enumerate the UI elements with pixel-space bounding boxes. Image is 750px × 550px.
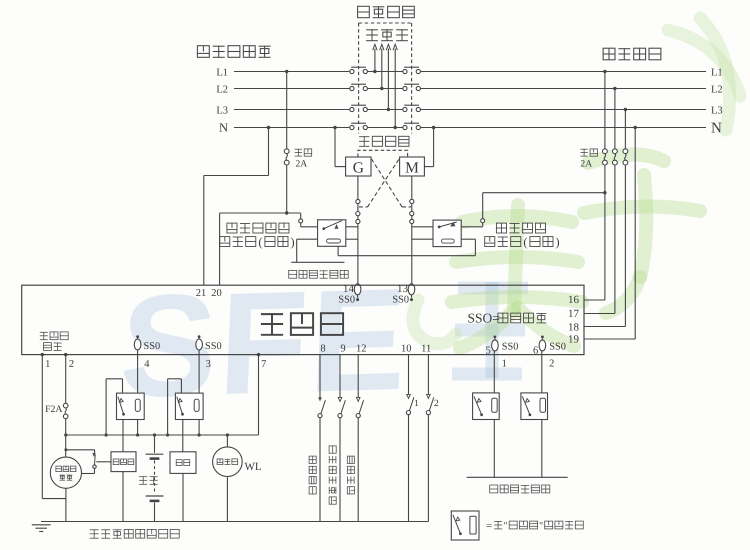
wire gen N down-left to pin21 — [204, 128, 269, 286]
wire gen fuse to relay row — [286, 165, 288, 213]
svg-text:F2A: F2A — [45, 404, 62, 415]
svg-text:1: 1 — [502, 359, 507, 370]
terminal circle into gen relay — [299, 213, 318, 227]
label pin 17 — [568, 308, 580, 320]
wire phase L3 — [234, 109, 706, 111]
pin7 wire to rail — [257, 353, 260, 435]
label rotated 遠端遙控啟動 — [329, 446, 336, 504]
label generator output 發電機輸出 — [197, 46, 270, 58]
label SSO=固態輸出 — [468, 311, 547, 326]
input switch pin9 — [338, 355, 346, 522]
svg-text:L1: L1 — [216, 67, 228, 78]
relay2 switch-top loop to rail — [166, 379, 181, 437]
svg-text:L3: L3 — [216, 105, 228, 116]
pin6 oval terminal — [539, 336, 546, 393]
svg-text:L2: L2 — [711, 84, 723, 95]
controller box 控制器 — [22, 285, 584, 354]
relay fuel (pin3) box — [175, 393, 203, 419]
contact M main N — [403, 123, 421, 129]
label 機房供電正極 upper — [289, 270, 349, 278]
svg-text:16: 16 — [568, 294, 580, 306]
wire pin6 relay to positive bar — [541, 420, 543, 478]
wire phase N — [234, 127, 706, 129]
contactor coil M box — [400, 157, 425, 176]
svg-text:SFE: SFE — [117, 258, 412, 428]
label 繼電器(常開) — [220, 235, 295, 249]
svg-text:6: 6 — [533, 346, 538, 357]
label to load 至負載 — [366, 29, 408, 40]
label 電池負極一定接地 — [90, 529, 180, 538]
wire phase L2 — [234, 88, 706, 90]
wire to load phase 3 with arrow — [386, 44, 390, 111]
label rotated 緊急停機 — [309, 456, 316, 494]
svg-text:2A: 2A — [296, 159, 308, 170]
label terminal 2 — [549, 359, 554, 370]
svg-text:2: 2 — [434, 399, 439, 409]
input switch pin11 — [426, 355, 434, 522]
wire to load phase 1 with arrow — [373, 44, 377, 73]
aux contacts under M + wire to pin13 — [410, 176, 414, 284]
label SS0 pin5 — [502, 341, 519, 352]
svg-text:WL: WL — [245, 461, 262, 473]
labels L1 L2 L3 N left — [216, 67, 228, 134]
label 溶絲 2A (gen) — [295, 149, 312, 170]
wire M relay coil left — [412, 238, 433, 240]
label 機房供電正極 lower — [490, 485, 550, 493]
solenoid switch — [82, 453, 111, 474]
contact M main L2 — [403, 84, 421, 90]
legend relay symbol box — [451, 511, 479, 540]
svg-text:2A: 2A — [580, 159, 592, 170]
label pin 18 — [568, 322, 580, 334]
pin2 wire upper — [64, 353, 67, 403]
wire motor bottom to ground — [65, 488, 67, 521]
rail battery positive — [66, 434, 259, 436]
mains L3 tap + fuse + wire to controller — [584, 108, 628, 327]
label SS0 pin3 — [205, 341, 222, 352]
relay K-G generator closing relay box — [318, 220, 346, 247]
label legend =外自動化類繼電器 — [486, 520, 583, 532]
wire M relay coil right to long link — [461, 239, 475, 256]
wire G relay coil left to positive bar — [297, 239, 318, 262]
relay K-M mains closing relay box — [433, 220, 461, 247]
label pin 3 — [206, 359, 211, 370]
label 溶絲 2A (mains) — [580, 149, 597, 170]
relay2 coil bottom to rail — [198, 420, 201, 437]
label pin 11 — [421, 343, 431, 354]
label WL — [245, 461, 262, 473]
aux contacts under G + wire to pin14 — [356, 176, 360, 284]
wire fuse out to pin20/relay — [220, 211, 301, 285]
svg-text:17: 17 — [568, 308, 580, 320]
mechanical interlock linkage dashed — [359, 23, 412, 134]
input switch pin10 — [406, 355, 414, 522]
label pin 10 — [401, 343, 412, 354]
wire G coil left to gen N — [333, 126, 345, 167]
fuel box 燃料 — [170, 452, 196, 474]
svg-text:2: 2 — [549, 359, 554, 370]
relay1 coil bottom to rail — [136, 420, 139, 437]
input switch pin8 — [318, 355, 326, 522]
svg-text:20: 20 — [211, 288, 222, 299]
input switch pin12 — [356, 355, 364, 522]
svg-text:M: M — [405, 159, 419, 176]
starter motor 起動器馬達 — [50, 457, 81, 488]
bar machine-room positive 機房供電正極 — [291, 261, 344, 263]
ground symbol — [32, 525, 51, 532]
svg-text:4: 4 — [144, 359, 150, 370]
svg-text:7: 7 — [261, 359, 266, 370]
svg-text:5: 5 — [485, 346, 490, 357]
svg-text:": " — [539, 520, 543, 531]
svg-text:L1: L1 — [711, 67, 723, 78]
label 市電合閘 — [496, 223, 545, 233]
svg-text:SS0: SS0 — [205, 341, 222, 352]
wire M relay contact right to mains L1 — [461, 191, 606, 227]
label pin 1 — [45, 359, 50, 370]
label pin 7 — [261, 359, 266, 370]
label 控制器 big — [261, 313, 343, 335]
wire starter top from relay1 — [122, 420, 124, 452]
label 14 — [343, 283, 355, 295]
svg-text:L3: L3 — [711, 105, 723, 116]
svg-text:SS0: SS0 — [392, 294, 409, 305]
svg-text:": " — [504, 520, 508, 531]
battery 電池 — [146, 433, 164, 521]
motor branch to solenoid switch — [64, 448, 94, 453]
wire G relay contact to column — [346, 226, 358, 228]
svg-text:(: ( — [258, 235, 262, 249]
electrical interlock dashed bracket — [358, 150, 408, 157]
svg-text:2: 2 — [69, 359, 74, 370]
svg-text:SS0: SS0 — [502, 341, 519, 352]
svg-text:N: N — [219, 120, 228, 134]
svg-text:SS0: SS0 — [144, 341, 161, 352]
svg-text:N: N — [711, 121, 722, 137]
charger 充電器 — [213, 433, 243, 521]
svg-text:8: 8 — [320, 343, 325, 354]
fuse F2A — [63, 403, 68, 418]
pin 13 oval terminal — [408, 284, 415, 301]
label pin 12 — [356, 343, 367, 354]
pin4 oval + wire to relay1 coil — [134, 335, 141, 393]
mains L2 tap + fuse + wire to controller — [584, 87, 617, 314]
svg-text:10: 10 — [401, 343, 412, 354]
label 繼電器(常閉) — [485, 235, 560, 249]
label pin 2 — [69, 359, 74, 370]
relay start (pin4) box — [117, 393, 145, 419]
label SS0 pin6 — [549, 341, 566, 352]
contact M main L3 — [403, 105, 421, 111]
label terminal 1 — [502, 359, 507, 370]
svg-text:(: ( — [523, 235, 527, 249]
starter box 起動器 — [111, 452, 136, 472]
label pin 20 — [211, 288, 222, 299]
label 13 — [397, 283, 409, 295]
svg-text:=: = — [486, 520, 492, 532]
svg-text:G: G — [353, 159, 364, 176]
svg-text:SS0: SS0 — [338, 294, 355, 305]
pin1 wire to motor — [41, 353, 66, 499]
label pin 21 — [196, 288, 207, 299]
wire gen L1 tap down — [286, 72, 288, 149]
contact G main L2 — [350, 84, 368, 90]
label pin 4 — [144, 359, 150, 370]
label pin 16 — [568, 294, 580, 306]
svg-text:21: 21 — [196, 288, 207, 299]
wire pin5 relay to positive bar — [493, 420, 495, 478]
svg-text:1: 1 — [45, 359, 50, 370]
svg-text:SS0: SS0 — [549, 341, 566, 352]
contact G main L1 — [350, 67, 368, 73]
svg-text:): ) — [291, 235, 295, 249]
interlock cross dashed G-M — [359, 158, 411, 207]
svg-text:19: 19 — [568, 333, 580, 345]
label mechanical interlock 機械互鎖 — [358, 6, 415, 17]
wire M relay contact left — [412, 226, 433, 228]
label 控制器供電 — [40, 332, 68, 351]
wire relay2 switch to fuel box — [182, 420, 184, 452]
label SS0 pin4 — [144, 341, 161, 352]
relay1 switch-top loop to rail — [105, 379, 123, 437]
label pin 19 — [568, 333, 580, 345]
svg-text:SSO=: SSO= — [468, 311, 500, 326]
label electrical interlock 電力互鎖 — [359, 136, 409, 146]
mains N tap to pin19 — [584, 126, 637, 339]
pin5 oval terminal — [492, 336, 499, 393]
pin3 oval + wire to relay2 coil — [196, 335, 203, 393]
label switch 2 — [434, 399, 439, 409]
wire starter bottom to ground — [122, 472, 124, 522]
wire G relay bottom to long link — [338, 246, 475, 255]
node generator N tap — [267, 126, 270, 129]
mains L1 tap + fuse + wire to controller — [584, 70, 607, 300]
svg-text:1: 1 — [414, 399, 419, 409]
label pin 9 — [340, 343, 345, 354]
ground rail — [41, 521, 428, 523]
wire M coil right to mains N — [424, 126, 435, 167]
external relay under pin5 — [473, 393, 500, 420]
label 發電機合閘 — [227, 223, 289, 233]
wire phase L1 — [234, 71, 706, 73]
label pin 8 — [320, 343, 325, 354]
svg-text:3: 3 — [206, 359, 211, 370]
wire to load phase 2 with arrow — [380, 44, 384, 90]
label SS0 pin14 — [338, 294, 355, 305]
external relay under pin6 — [521, 393, 548, 420]
label SS0 pin13 — [392, 294, 409, 305]
svg-text:11: 11 — [421, 343, 431, 354]
label F2A — [45, 404, 62, 415]
svg-text:12: 12 — [356, 343, 367, 354]
labels L1 L2 L3 N right — [711, 67, 723, 136]
watermark — [112, 18, 740, 428]
label pin 5 — [485, 346, 490, 357]
wire G relay coil right to column — [346, 238, 358, 240]
pin 14 oval terminal — [354, 284, 361, 301]
label pin 6 — [533, 346, 538, 357]
contact G main N — [350, 123, 368, 129]
node generator L1 tap — [285, 70, 288, 73]
label 電池 — [139, 476, 158, 484]
contact G main L3 — [350, 105, 368, 111]
svg-text:9: 9 — [340, 343, 345, 354]
pin2 wire lower to motor top — [64, 419, 67, 458]
svg-text:): ) — [556, 235, 560, 249]
contactor coil G box — [346, 157, 371, 176]
label rotated 怠速控制 — [347, 456, 354, 494]
wire to load phase 4 with arrow — [393, 44, 397, 129]
svg-text:L2: L2 — [216, 84, 228, 95]
label mains input 市電輸入 — [603, 48, 661, 60]
svg-text:18: 18 — [568, 322, 580, 334]
contact M main L1 — [403, 67, 421, 73]
bar machine-room positive lower — [467, 476, 568, 478]
label switch 1 — [414, 399, 419, 409]
wire fuel bottom to ground — [182, 473, 184, 521]
fuse gen 2A — [284, 149, 289, 165]
